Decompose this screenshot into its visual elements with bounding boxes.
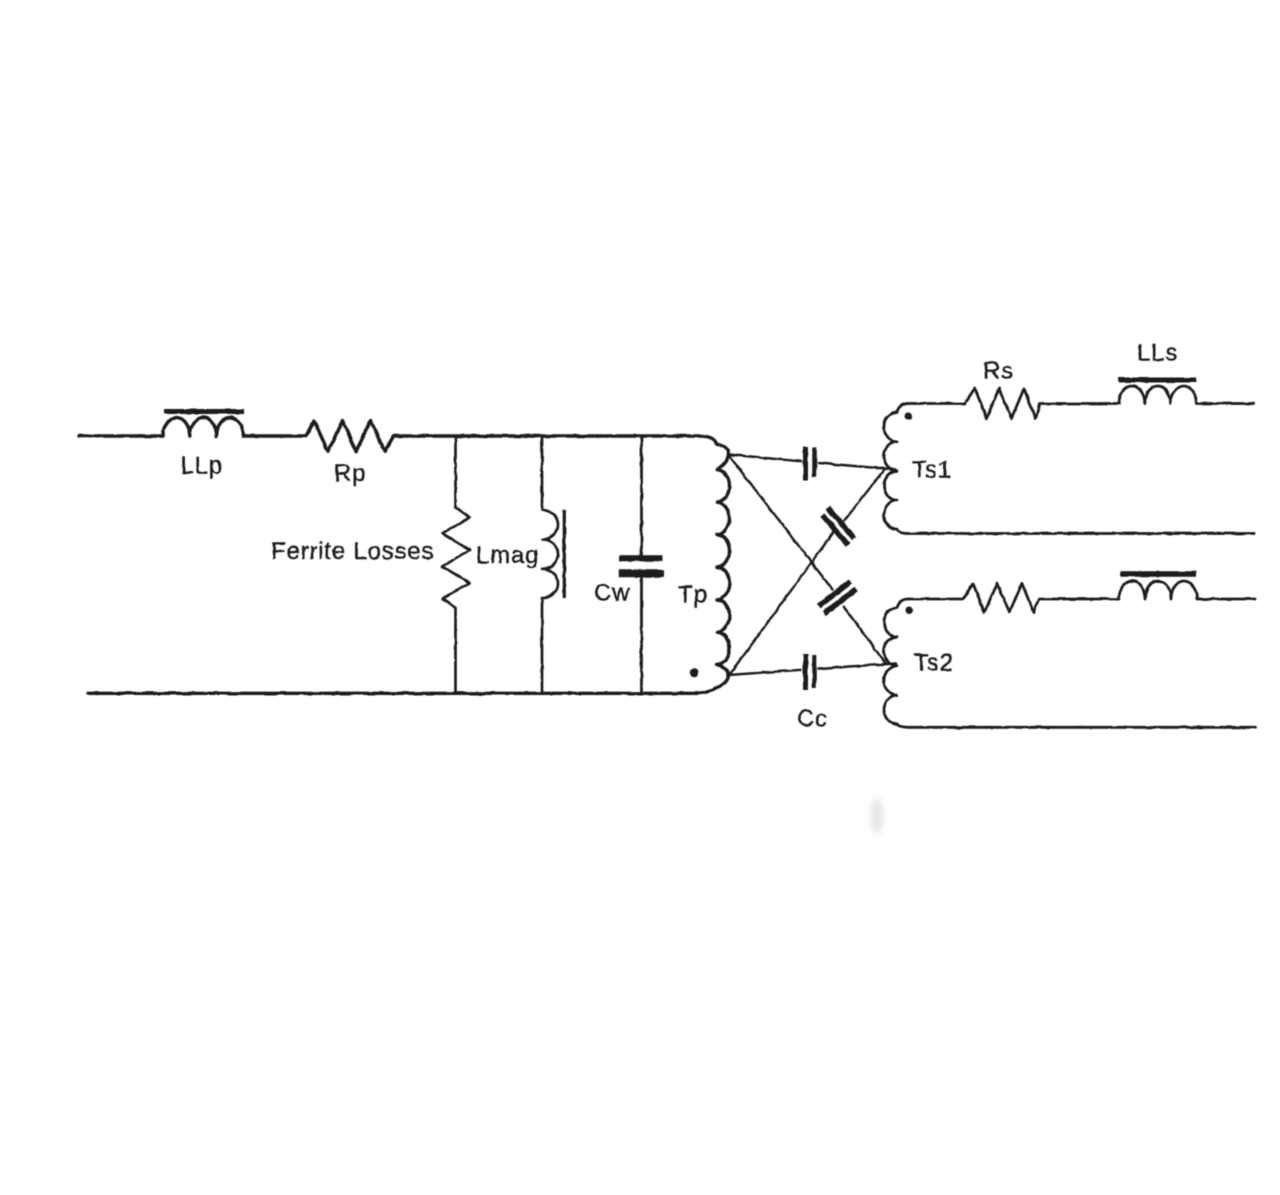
inductor LLs core bar [1118,378,1196,383]
wire top rail with Tp winding and bottom rail [79,417,729,693]
svg-text:Tp: Tp [678,582,708,609]
inductor LLs2 core bar [1120,571,1196,577]
transformer Ts2 winding and bottom wire [884,599,1256,727]
inductor Lmag core bar [563,510,566,598]
node dot Ts1 [905,412,913,420]
transformer Ts1 top wire with Rs and LLs [908,386,1254,419]
transformer Ts2 top wire with Rs2 and LLs2 [908,581,1255,612]
svg-text:LLs: LLs [1137,340,1178,367]
svg-text:Rp: Rp [334,460,366,487]
resistor Ferrite Losses branch [443,436,470,693]
wire H2 Tp bottom to Ts2 [729,664,896,676]
faint scan smudge [870,798,884,834]
inductor LLp core bar [164,409,245,414]
wire D1 Tp top to Ts2 [729,455,887,664]
svg-text:Rs: Rs [983,358,1014,385]
node dot Ts2 [905,607,913,615]
capacitor Cw plates [620,555,663,561]
capacitor Cc3 plates [819,582,851,607]
svg-text:Ts1: Ts1 [912,457,952,484]
capacitor Cc2 plates [828,508,854,539]
svg-text:Lmag: Lmag [476,542,539,569]
capacitor Cw branch [640,436,643,555]
transformer Ts1 winding and bottom wire [884,404,1254,534]
svg-text:Cw: Cw [594,580,630,607]
inductor Lmag branch [542,436,558,693]
svg-text:Ts2: Ts2 [914,650,954,677]
svg-text:Cc: Cc [797,706,828,733]
svg-text:LLp: LLp [181,453,223,480]
capacitor Cc4 plates [803,654,808,690]
svg-text:Ferrite Losses: Ferrite Losses [271,538,434,565]
wire D2 Tp bottom to Ts1 [729,470,884,676]
capacitor Cc1 plates [803,447,808,481]
node dot Tp [690,668,698,676]
wire H1 Tp top to Ts1 [729,455,897,470]
